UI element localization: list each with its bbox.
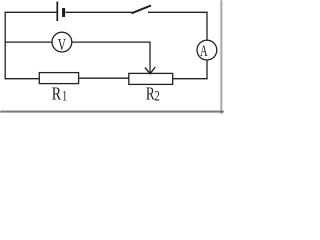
wire bottom right: R2 to right rail [173,78,208,80]
battery short plate [62,8,65,17]
svg-text:R: R [146,84,155,104]
wire V branch left [5,41,52,43]
resistor R2 box [129,73,173,84]
frame bottom border [0,111,224,113]
ammeter U2 circle [197,40,217,60]
wire bottom middle: R1 to R2 [79,77,129,79]
wire bottom left: left rail to R1 [5,78,40,80]
svg-text:A: A [200,43,208,60]
svg-text:1: 1 [62,89,67,105]
voltmeter U1 circle [52,32,72,52]
wire left rail [4,12,6,80]
wiper arrowhead [145,67,155,74]
wire battery to switch [66,11,133,13]
frame right border [220,0,222,114]
svg-text:2: 2 [154,89,159,105]
switch S blade [132,6,152,14]
resistor R1 box [39,73,78,84]
wire right rail lower [206,60,208,79]
svg-text:V: V [58,35,67,54]
wire right rail upper [206,12,208,41]
wire top left to battery [5,11,57,13]
wire V branch right [72,41,151,43]
svg-text:R: R [52,84,61,104]
wire wiper vertical [149,42,151,73]
wire switch to top right corner [148,11,208,13]
battery long plate [56,2,58,22]
